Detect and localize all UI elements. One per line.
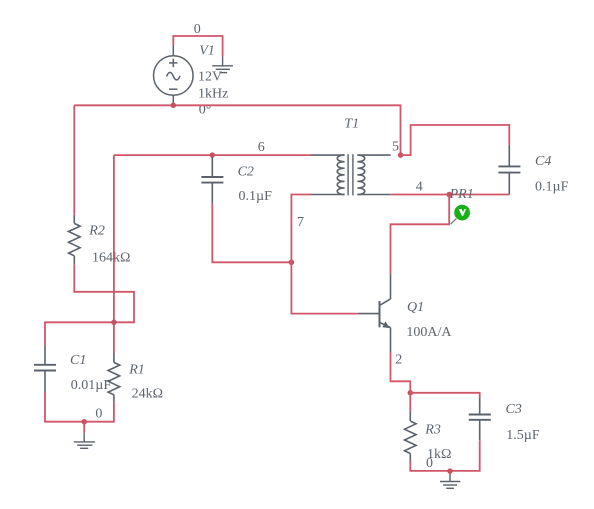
AC source V1 [154, 46, 194, 106]
svg-text:0.01µF: 0.01µF [71, 378, 112, 393]
svg-text:V1: V1 [199, 44, 215, 59]
svg-text:0: 0 [95, 407, 102, 422]
junction C2 top [210, 152, 216, 158]
svg-text:100A/A: 100A/A [406, 325, 452, 340]
svg-text:1kHz: 1kHz [198, 86, 228, 101]
wire V1 plus to ground [173, 36, 222, 56]
svg-text:2: 2 [395, 353, 402, 368]
capacitor C3 [469, 398, 491, 441]
junction V1 bottom [171, 103, 177, 109]
ground top (V1) [212, 56, 233, 72]
svg-text:1.5µF: 1.5µF [506, 428, 540, 443]
wire to C3 top [410, 393, 479, 398]
svg-text:4: 4 [416, 180, 423, 195]
svg-text:7: 7 [297, 215, 304, 230]
wire ground stub left [83, 422, 85, 433]
svg-text:5: 5 [392, 140, 399, 155]
wire bottom left net [45, 393, 114, 422]
wire main horizontal net [74, 105, 400, 155]
svg-text:C2: C2 [238, 164, 254, 179]
svg-text:C1: C1 [70, 353, 86, 368]
svg-text:Q1: Q1 [407, 300, 424, 315]
junction pin4 / collector [446, 192, 452, 198]
probe PR1 body [454, 205, 470, 221]
junction emitter / R3 / C3 [408, 390, 414, 396]
svg-text:R3: R3 [424, 423, 441, 438]
wire pin 6 net vertical [113, 155, 115, 353]
junction node7 net [289, 260, 295, 266]
wire pin5 to C4 [401, 125, 510, 155]
capacitor C1 [34, 346, 56, 393]
svg-text:R1: R1 [128, 363, 145, 378]
wire ground stub right [449, 471, 451, 475]
svg-text:C4: C4 [535, 154, 551, 169]
svg-text:164kΩ: 164kΩ [92, 251, 130, 266]
svg-text:24kΩ: 24kΩ [132, 387, 163, 402]
resistor R2 [69, 215, 81, 264]
svg-text:0.1µF: 0.1µF [535, 180, 569, 195]
capacitor C4 [498, 145, 520, 195]
resistor R3 [405, 412, 417, 461]
svg-text:R2: R2 [88, 224, 105, 239]
wire bottom right net [410, 440, 479, 471]
junction right ground [447, 468, 453, 474]
wire emitter net [391, 353, 411, 393]
capacitor C2 [201, 157, 223, 203]
ground bottom left [74, 433, 95, 449]
svg-text:0.1µF: 0.1µF [239, 189, 273, 204]
svg-text:0: 0 [426, 456, 433, 471]
svg-text:T1: T1 [344, 117, 359, 132]
wire pin 7 net [291, 195, 357, 314]
ground bottom right [440, 475, 460, 488]
svg-text:0: 0 [194, 22, 201, 37]
transformer T1 [311, 154, 391, 195]
wire to R3 top [409, 393, 411, 412]
wire collector net [391, 195, 450, 274]
wire R2 bottom jog [45, 264, 134, 345]
svg-text:PR1: PR1 [449, 187, 474, 202]
probe PR1 V glyph [459, 209, 466, 216]
wire C2 bottom [212, 203, 291, 262]
resistor R1 [108, 353, 120, 402]
wire pin 4 net [391, 194, 510, 196]
junction pin 5 [398, 152, 404, 158]
probe PR1 pointer [451, 219, 457, 225]
transistor Q1 [358, 274, 391, 353]
svg-text:C3: C3 [506, 402, 522, 417]
svg-text:6: 6 [258, 140, 265, 155]
junction pin6 / R1 / C1 / R2 [111, 320, 117, 326]
wire to R2 top [73, 105, 75, 215]
wire pin 6 net horizontal [114, 154, 311, 156]
svg-text:12V: 12V [198, 70, 222, 85]
junction left ground [81, 419, 87, 425]
